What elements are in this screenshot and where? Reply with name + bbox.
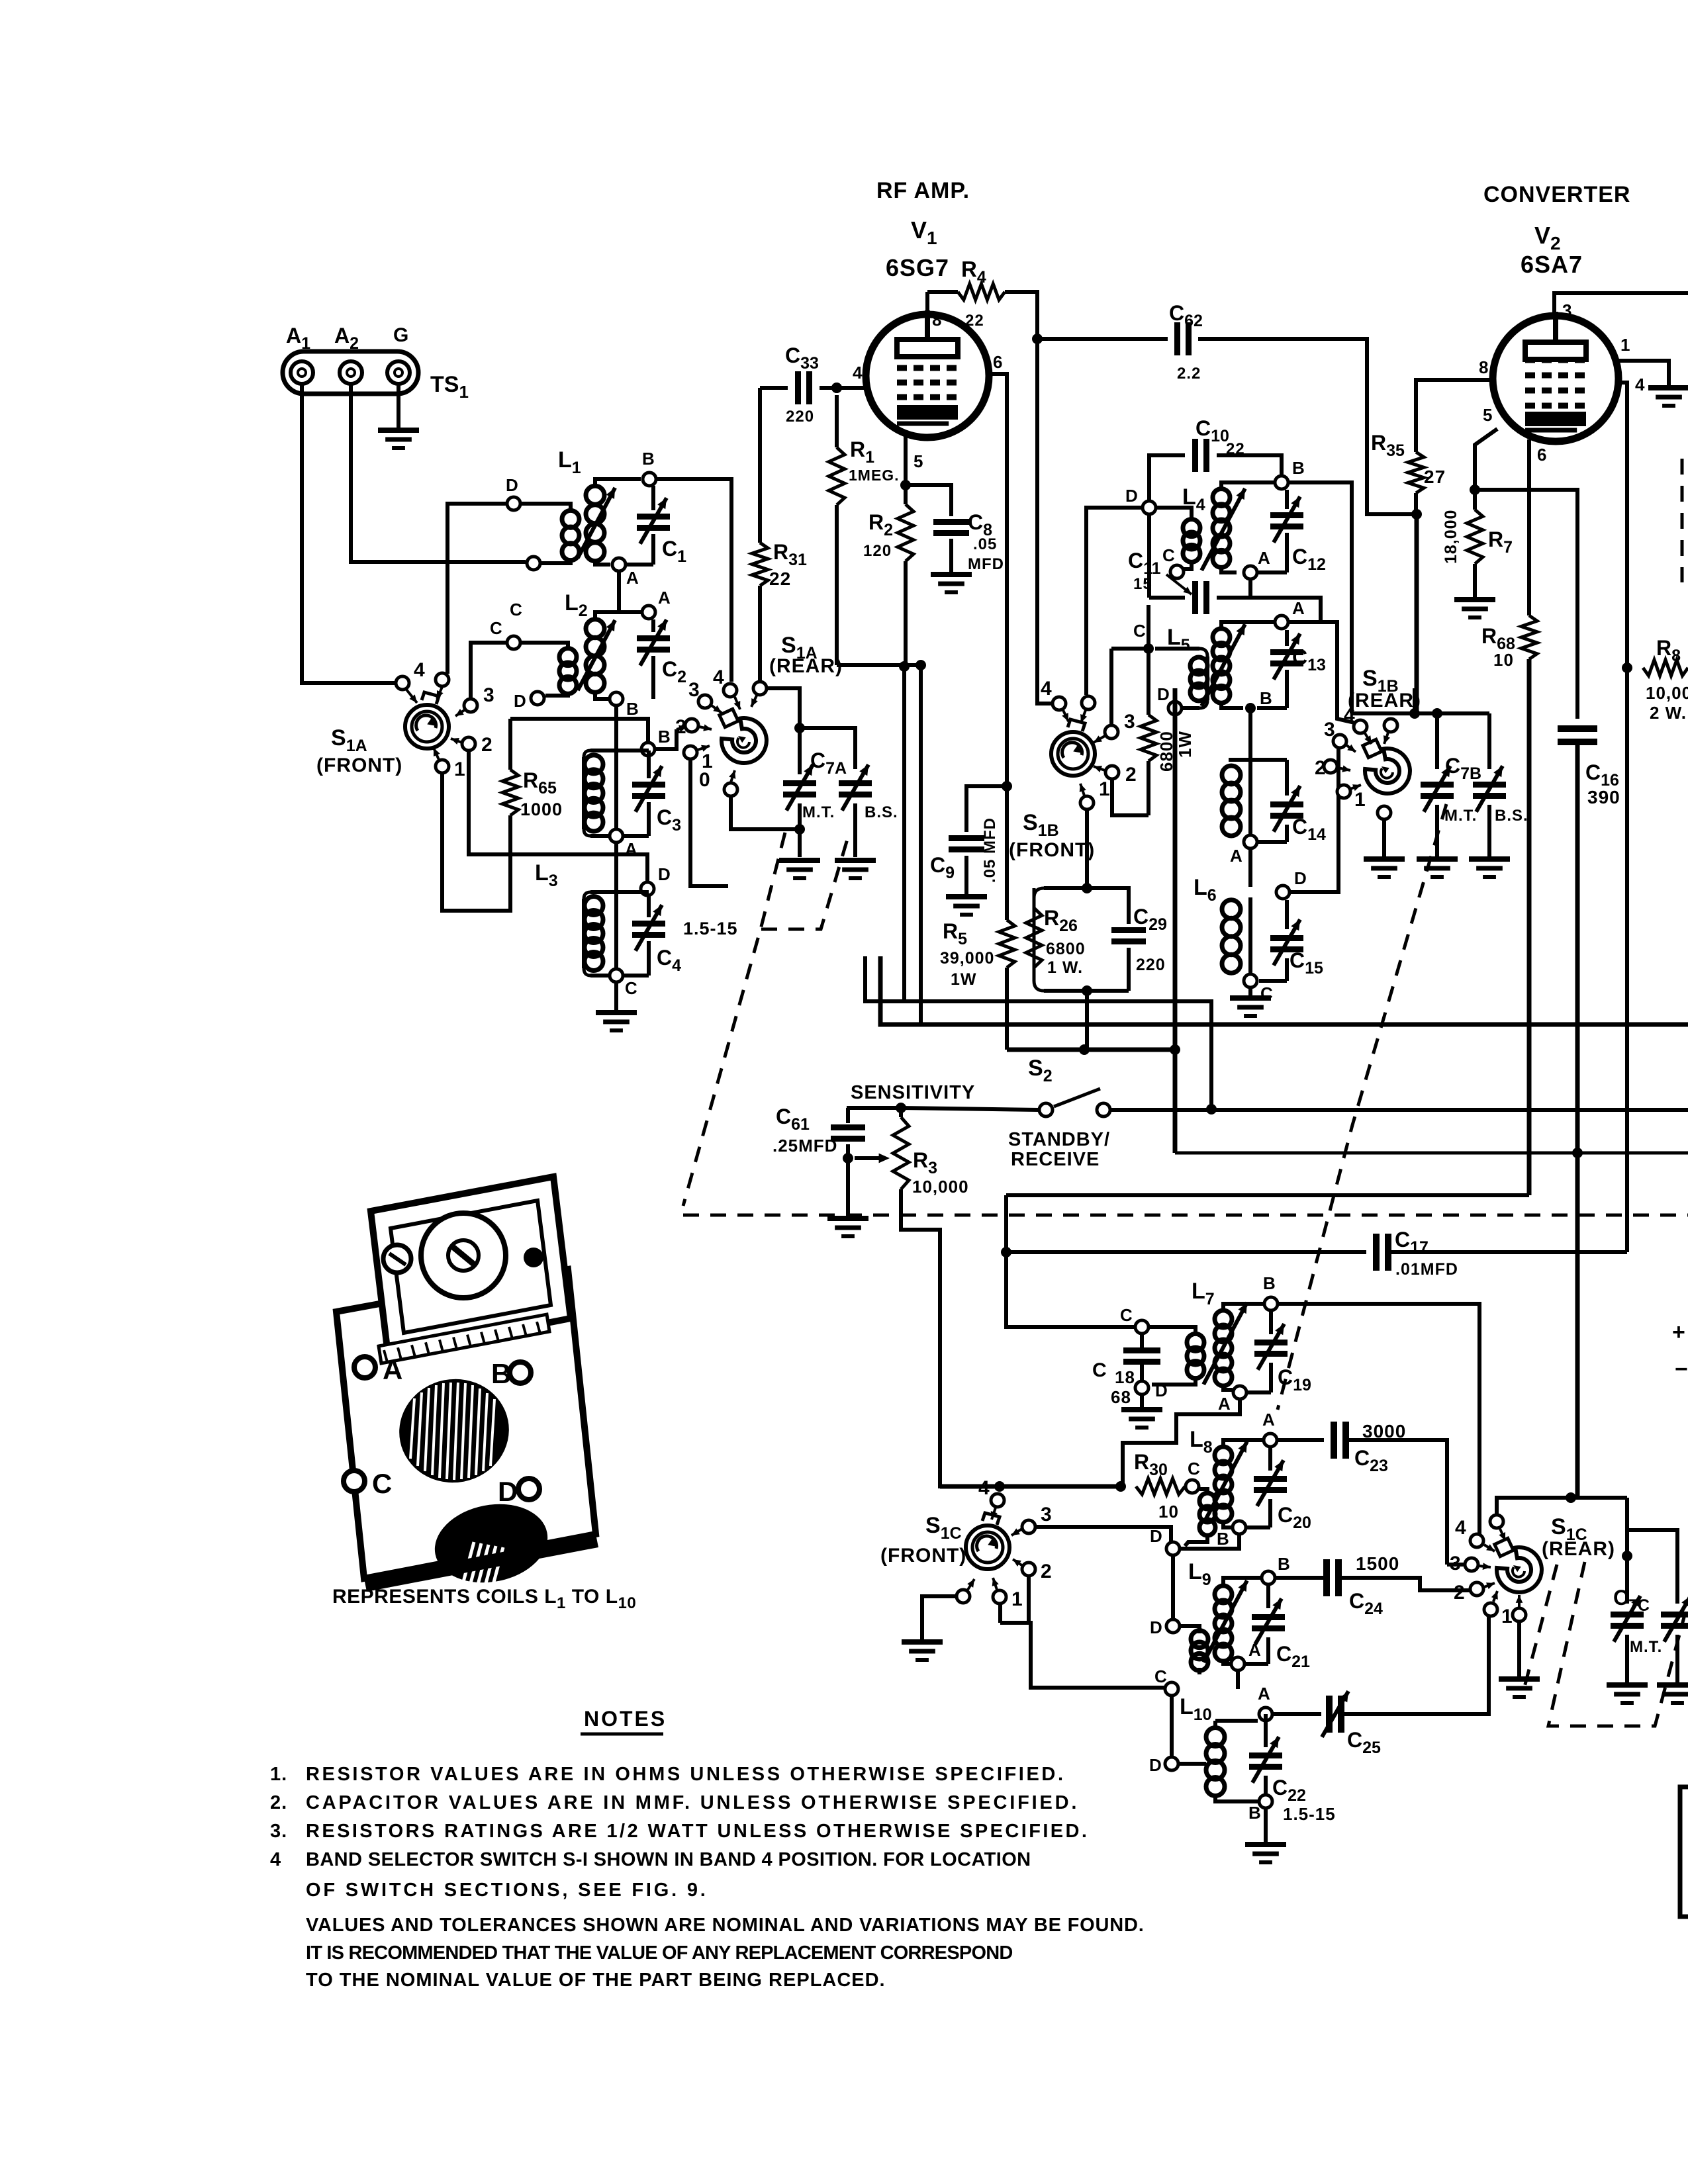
svg-text:68: 68 bbox=[1111, 1387, 1131, 1407]
node B of L7 bbox=[1263, 1273, 1278, 1310]
wire contact 2 to resistor bottom bbox=[1112, 780, 1149, 815]
svg-text:(FRONT): (FRONT) bbox=[1009, 839, 1095, 861]
svg-text:C: C bbox=[1154, 1666, 1168, 1686]
dashed linkage right edge bbox=[1681, 459, 1684, 582]
resistor R2 bbox=[863, 485, 914, 666]
svg-text:D: D bbox=[1150, 1526, 1163, 1546]
svg-text:D: D bbox=[658, 864, 671, 884]
svg-text:220: 220 bbox=[786, 408, 814, 426]
junction S1B rear b bbox=[1432, 708, 1442, 719]
switch S2 contacts bbox=[1039, 1089, 1110, 1116]
svg-text:VALUES AND TOLERANCES SHOWN AR: VALUES AND TOLERANCES SHOWN ARE NOMINAL … bbox=[306, 1915, 1145, 1936]
svg-text:3.: 3. bbox=[270, 1821, 287, 1842]
S1B rear contact 4 bbox=[1344, 704, 1372, 744]
wire L2 B down to L3 section bbox=[614, 706, 618, 751]
S1A rear moving contact bbox=[751, 682, 767, 707]
switch S2 label bbox=[1028, 1056, 1053, 1085]
svg-text:D: D bbox=[1150, 1617, 1163, 1637]
svg-text:C: C bbox=[1092, 1359, 1107, 1381]
node A of L4 bbox=[1244, 548, 1271, 579]
wire pin5 to C16 branch bbox=[1475, 490, 1577, 719]
plus minus marks bbox=[1672, 1320, 1688, 1382]
node C of L5 bbox=[1133, 621, 1154, 654]
svg-text:B: B bbox=[1278, 1554, 1291, 1574]
coil L6 winding upper bbox=[1222, 760, 1250, 836]
svg-text:2: 2 bbox=[675, 716, 687, 738]
node A of L6 bbox=[1230, 835, 1257, 866]
svg-text:10: 10 bbox=[1493, 650, 1514, 670]
svg-text:C: C bbox=[1162, 545, 1176, 565]
node D of L8 row bbox=[1150, 1526, 1180, 1555]
node B of L10 bbox=[1248, 1795, 1272, 1823]
svg-text:2: 2 bbox=[481, 734, 493, 756]
S1C rear contact 4 bbox=[1455, 1517, 1495, 1551]
svg-text:B: B bbox=[1217, 1529, 1230, 1549]
svg-text:1: 1 bbox=[1620, 335, 1630, 355]
svg-text:1W: 1W bbox=[951, 970, 977, 989]
trimmer capacitor B.S. of C7B bbox=[1473, 713, 1528, 857]
node D of L6 bbox=[1276, 868, 1307, 899]
wire R35 junction down to S1B rear bbox=[1415, 514, 1419, 713]
svg-text:8: 8 bbox=[1479, 357, 1489, 377]
node A of L3 bbox=[610, 829, 638, 859]
node B of L9 bbox=[1262, 1554, 1291, 1584]
resistor 6800 1W bbox=[1141, 605, 1195, 815]
capacitor C8 bbox=[906, 485, 1009, 573]
tube V2 pin 5 lead bbox=[1475, 405, 1497, 490]
coil L2 label bbox=[565, 590, 588, 620]
svg-text:4: 4 bbox=[1635, 375, 1645, 394]
node C of L1 bbox=[510, 557, 540, 619]
svg-text:2: 2 bbox=[1041, 1561, 1053, 1582]
svg-text:22: 22 bbox=[1226, 440, 1245, 458]
ground under B.S. of C7C bbox=[1657, 1685, 1688, 1703]
wire R3 to S1C front bbox=[901, 1189, 993, 1486]
long vertical from R2 bbox=[902, 666, 906, 1001]
capacitor C17 bbox=[1006, 1228, 1627, 1279]
svg-text:4: 4 bbox=[1041, 678, 1053, 700]
svg-text:4: 4 bbox=[978, 1477, 990, 1499]
coil L5 primary bbox=[1155, 649, 1207, 708]
svg-text:4: 4 bbox=[1455, 1517, 1467, 1539]
wire A row bbox=[614, 843, 618, 887]
svg-text:1W: 1W bbox=[1175, 731, 1195, 758]
wire contact1 stub bbox=[998, 1604, 1002, 1623]
tube V1 designation bbox=[876, 178, 970, 281]
standby receive label bbox=[1008, 1129, 1110, 1170]
node A of L8 bbox=[1262, 1410, 1277, 1447]
wire S1B contact1 down bbox=[1085, 810, 1089, 888]
node A of L2 bbox=[642, 588, 671, 619]
wire contact2 branch down bbox=[1029, 1623, 1165, 1688]
wire S2 to right bbox=[1110, 1108, 1688, 1112]
variable capacitor C1 bbox=[626, 486, 686, 566]
ground under L6 bbox=[1230, 988, 1271, 1016]
svg-text:B.S.: B.S. bbox=[865, 803, 898, 821]
wire S1A contact 2 down bbox=[469, 751, 584, 854]
svg-text:A: A bbox=[1258, 1684, 1271, 1704]
svg-text:(REAR): (REAR) bbox=[769, 655, 843, 677]
tank L6 upper box bbox=[1229, 760, 1287, 887]
variable capacitor C14 bbox=[1257, 760, 1326, 844]
coil L8 label bbox=[1190, 1427, 1213, 1457]
tube V1 pin 5 lead bbox=[906, 430, 923, 485]
S1B front contact 2 bbox=[1094, 764, 1137, 786]
svg-text:C: C bbox=[1188, 1459, 1201, 1479]
tube V2 designation bbox=[1483, 182, 1630, 278]
tube V2 pin 8 lead bbox=[1416, 357, 1494, 452]
resistor R1 bbox=[829, 395, 900, 665]
junction S2 right bbox=[1206, 1104, 1217, 1115]
coil L10 winding bbox=[1179, 1721, 1258, 1801]
svg-text:2.: 2. bbox=[270, 1792, 287, 1813]
svg-text:.25MFD: .25MFD bbox=[773, 1136, 837, 1156]
wire C of L10 down bbox=[1170, 1696, 1174, 1756]
wire C33 to V1 pin 4 bbox=[837, 363, 867, 388]
capacitor C4 range label bbox=[683, 919, 738, 938]
node D of L2 bbox=[514, 691, 544, 711]
S1C front contact 2 bbox=[1013, 1559, 1053, 1582]
ground under S1B rear bbox=[1364, 859, 1405, 877]
node B of L8 bbox=[1217, 1521, 1246, 1549]
wire D of L8 to B of L8 bbox=[1180, 1535, 1239, 1549]
svg-text:RESISTORS RATINGS ARE 1/2 W: RESISTORS RATINGS ARE 1/2 WATT UNLESS OT… bbox=[306, 1821, 1089, 1842]
coil L4 secondary bbox=[1201, 482, 1275, 572]
dashed linkage middle diagonal bbox=[1278, 804, 1446, 1410]
capacitor C33 bbox=[760, 343, 837, 426]
bus wire y1544 bbox=[880, 956, 1688, 1024]
svg-text:3: 3 bbox=[1324, 719, 1336, 741]
right edge bracket bbox=[1680, 1787, 1688, 1917]
S1C rear contact 1 bbox=[1484, 1591, 1513, 1627]
S1A front contact 1 bbox=[434, 748, 466, 780]
svg-text:IT IS RECOMMENDED THAT THE VAL: IT IS RECOMMENDED THAT THE VALUE OF ANY … bbox=[306, 1942, 1012, 1964]
bus wire y1737 bbox=[1175, 1148, 1688, 1158]
S1A front contact 3 bbox=[455, 684, 495, 716]
svg-text:2 W.: 2 W. bbox=[1650, 703, 1687, 723]
svg-text:120: 120 bbox=[863, 542, 892, 560]
junction top of R26 bbox=[1082, 883, 1092, 893]
capacitor C61 bbox=[773, 1105, 865, 1158]
switch S1A front rotor bbox=[405, 692, 449, 749]
wire A2 to coil L1 terminal C bbox=[351, 384, 526, 562]
svg-text:BAND SELECTOR SWITCH S-I SHOWN: BAND SELECTOR SWITCH S-I SHOWN IN BAND 4… bbox=[306, 1849, 1031, 1870]
ground under C18 bbox=[1121, 1395, 1162, 1428]
switch S1C front rotor bbox=[966, 1513, 1009, 1569]
wire R1 bottom row bbox=[837, 663, 921, 667]
node A of L1 bbox=[612, 558, 639, 588]
junction V2 pin 5 bbox=[1470, 484, 1480, 495]
node C of L10 bbox=[1154, 1666, 1178, 1696]
svg-text:2: 2 bbox=[1454, 1582, 1466, 1604]
coil L4 primary bbox=[1156, 508, 1200, 569]
wire D of L4 to S1B front contact 4 bbox=[1086, 508, 1143, 695]
coil L4 label bbox=[1182, 484, 1205, 514]
note 1. bbox=[270, 1764, 1066, 1785]
wire R26 to ground bus bbox=[1085, 991, 1089, 1050]
svg-text:B: B bbox=[491, 1358, 511, 1389]
svg-text:1: 1 bbox=[1354, 789, 1366, 811]
S1A rear contact 3 bbox=[688, 679, 722, 713]
wire R65 top to L2 B branch bbox=[510, 719, 648, 741]
capacitor C62 bbox=[1037, 301, 1412, 514]
svg-text:B: B bbox=[1260, 688, 1273, 708]
svg-text:D: D bbox=[1125, 486, 1139, 506]
svg-text:MFD.: MFD. bbox=[968, 555, 1009, 573]
svg-text:1: 1 bbox=[454, 758, 466, 780]
node A of L10 bbox=[1258, 1684, 1272, 1721]
S1C rear contact 3 bbox=[1450, 1553, 1491, 1574]
svg-text:SENSITIVITY: SENSITIVITY bbox=[851, 1082, 975, 1103]
svg-text:220: 220 bbox=[1136, 956, 1166, 974]
svg-text:6: 6 bbox=[993, 352, 1003, 372]
bus wire y1806 bbox=[1006, 1193, 1529, 1197]
wire junction to B.S. bbox=[800, 728, 855, 769]
dashed linkage corner piece bbox=[761, 833, 849, 929]
resistor R5 bbox=[940, 919, 1015, 1050]
node D of L10 bbox=[1149, 1755, 1178, 1775]
wire x1515 down to C17 bbox=[1001, 1195, 1135, 1327]
ground under C9 bbox=[946, 897, 987, 915]
wire L7 A to L8 row bbox=[1123, 1400, 1240, 1486]
wire C61 to ground bbox=[827, 1158, 868, 1236]
svg-text:5: 5 bbox=[914, 451, 923, 471]
coil L3 label bbox=[535, 860, 558, 890]
svg-text:B: B bbox=[642, 449, 655, 469]
junction at V1 grid bbox=[831, 383, 842, 393]
capacitor C23 bbox=[1278, 1421, 1447, 1565]
note 3. bbox=[270, 1821, 1089, 1842]
pictorial shielded coil body bbox=[336, 1177, 598, 1592]
S1C front contact 3 bbox=[1011, 1504, 1053, 1535]
wire B of L10 to ground bbox=[1245, 1809, 1286, 1862]
svg-text:B: B bbox=[626, 699, 639, 719]
ground under C7A bbox=[779, 829, 820, 878]
svg-text:M.T.: M.T. bbox=[1630, 1638, 1662, 1656]
capacitor C11 bbox=[1128, 515, 1321, 622]
note 4 bbox=[270, 1849, 1031, 1870]
ground under C7B bbox=[1417, 859, 1458, 877]
ground under C7C bbox=[1607, 1685, 1648, 1703]
switch S1C front label bbox=[880, 1513, 966, 1567]
S1C front contact 1 bbox=[992, 1578, 1023, 1610]
svg-text:390: 390 bbox=[1587, 787, 1620, 807]
S1B front contact 3 bbox=[1094, 711, 1136, 743]
variable capacitor C21 bbox=[1245, 1585, 1310, 1671]
node C of L8 bbox=[1186, 1459, 1201, 1493]
S1C front contact 4 bbox=[978, 1477, 1004, 1520]
S1B rear contact 2 bbox=[1315, 757, 1350, 779]
coil L3 lower winding bbox=[585, 887, 616, 971]
svg-text:RESISTOR VALUES ARE IN OHMS: RESISTOR VALUES ARE IN OHMS UNLESS OTHER… bbox=[306, 1764, 1066, 1785]
switch S1A front label bbox=[316, 725, 402, 776]
resistor R65 bbox=[502, 719, 563, 857]
bus wire y1586 bbox=[1007, 1048, 1175, 1052]
svg-text:A: A bbox=[1262, 1410, 1276, 1430]
junction under C7A bbox=[794, 824, 805, 835]
switch S1B front label bbox=[1009, 810, 1095, 861]
vertical wire to 1737 corner bbox=[1173, 688, 1178, 1153]
resistor R26 with C29 box bbox=[1026, 888, 1087, 991]
coil L10 label bbox=[1180, 1694, 1212, 1724]
variable capacitor C12 bbox=[1257, 490, 1326, 574]
capacitor C16 bbox=[1558, 729, 1620, 1498]
coil L9 secondary bbox=[1203, 1578, 1261, 1664]
svg-text:1 W.: 1 W. bbox=[1047, 958, 1083, 977]
wire A of L5 to right bbox=[1289, 622, 1354, 723]
terminal strip TS1 bbox=[283, 324, 469, 402]
svg-text:8: 8 bbox=[932, 310, 942, 330]
svg-text:2: 2 bbox=[1125, 764, 1137, 786]
tank circuit box with C3 bbox=[584, 751, 649, 836]
wire bottom contact to ground bbox=[1499, 1622, 1540, 1697]
svg-text:A: A bbox=[1292, 598, 1305, 618]
S1A rear contact 0 bbox=[699, 769, 737, 796]
wire L1 A to L2 A bbox=[619, 572, 641, 612]
R3 wiper arrow bbox=[855, 1154, 890, 1163]
svg-text:10,000: 10,000 bbox=[1646, 683, 1688, 703]
junction bottom of R26 bbox=[1082, 985, 1092, 996]
wire D of L1 to S1A front bbox=[447, 504, 507, 674]
node A of L9 bbox=[1231, 1640, 1262, 1670]
long vertical paralleling bbox=[915, 660, 926, 1024]
svg-text:D: D bbox=[1294, 868, 1307, 888]
switch S1A rear label bbox=[769, 633, 843, 677]
switch S1B rear label bbox=[1348, 666, 1421, 711]
svg-text:TO THE NOMINAL VALUE OF THE PA: TO THE NOMINAL VALUE OF THE PART BEING R… bbox=[306, 1970, 886, 1991]
svg-text:B: B bbox=[1248, 1803, 1262, 1823]
svg-text:CAPACITOR VALUES ARE IN MMF: CAPACITOR VALUES ARE IN MMF. UNLESS OTHE… bbox=[306, 1792, 1079, 1813]
wire S1A front contact 1 down bbox=[442, 774, 510, 911]
S1B front moving contact bbox=[1080, 696, 1095, 723]
coil L7 secondary bbox=[1203, 1302, 1264, 1390]
wire S1A rear contact 1 down bbox=[690, 760, 728, 886]
tube V2 pin 3 lead bbox=[1554, 293, 1688, 320]
svg-text:1.5-15: 1.5-15 bbox=[683, 919, 738, 938]
S1A front contact 2 bbox=[451, 734, 493, 756]
trimmer capacitor B.S. of C7A bbox=[839, 764, 898, 857]
svg-text:3: 3 bbox=[483, 684, 495, 706]
svg-text:1.5-15: 1.5-15 bbox=[1283, 1804, 1336, 1824]
bus wire y1513 bbox=[865, 956, 1211, 1108]
tube V2 pin 4 lead bbox=[1618, 375, 1645, 1252]
svg-text:6800: 6800 bbox=[1046, 940, 1086, 958]
svg-text:C: C bbox=[1120, 1305, 1133, 1325]
variable capacitor C3 bbox=[624, 751, 681, 836]
svg-text:1: 1 bbox=[1011, 1588, 1023, 1610]
junction C9 tap bbox=[1002, 781, 1012, 792]
wire contact 3 row bbox=[1111, 647, 1145, 651]
wire L2 C to S1A front contact 3 bbox=[471, 643, 507, 699]
svg-text:18: 18 bbox=[1115, 1367, 1135, 1387]
R26 labels bbox=[1044, 906, 1086, 977]
wire S1B rear top row bbox=[1352, 711, 1489, 715]
node B of L1 bbox=[642, 449, 656, 486]
resistor R7 bbox=[1442, 490, 1513, 598]
svg-text:1.: 1. bbox=[270, 1764, 287, 1785]
svg-text:+: + bbox=[1672, 1320, 1686, 1345]
resistor R30 bbox=[1134, 1450, 1185, 1522]
junction sensitivity bbox=[896, 1103, 906, 1113]
node D of L3 bbox=[641, 864, 671, 895]
switch S1B rear rotor bbox=[1363, 739, 1410, 794]
dashed gang line horizontal bbox=[683, 1214, 1688, 1217]
ground under L3 bbox=[596, 983, 637, 1030]
wire node to S1A rear contact 2 bbox=[655, 725, 687, 749]
junction bus1 bbox=[1079, 1044, 1090, 1055]
junction S1B rear a bbox=[1409, 708, 1420, 719]
svg-text:B: B bbox=[1292, 458, 1305, 478]
junction R4 C62 bbox=[1032, 334, 1043, 344]
svg-text:39,000: 39,000 bbox=[940, 949, 994, 968]
note 4 second line bbox=[306, 1880, 708, 1901]
svg-text:D: D bbox=[498, 1476, 518, 1507]
resistor R31 bbox=[752, 388, 807, 680]
svg-text:C: C bbox=[625, 978, 638, 998]
wire D of L6 right bbox=[1290, 735, 1338, 892]
svg-text:D: D bbox=[506, 475, 519, 495]
svg-text:(REAR): (REAR) bbox=[1348, 690, 1421, 711]
S1A rear contact 4 bbox=[713, 666, 740, 709]
wire contact1 of S1B rear to ground bbox=[1378, 806, 1391, 857]
trimmer capacitor C7C M.T. bbox=[1611, 1498, 1662, 1683]
svg-text:B.S.: B.S. bbox=[1495, 807, 1528, 825]
wire pin4 row junction down R1 bbox=[831, 383, 842, 393]
switch S1C rear label bbox=[1542, 1514, 1615, 1560]
svg-text:10,000: 10,000 bbox=[912, 1177, 969, 1197]
variable capacitor C19 bbox=[1247, 1311, 1311, 1394]
svg-text:.01MFD: .01MFD bbox=[1395, 1260, 1458, 1279]
tube V2 6SA7 bbox=[1493, 312, 1618, 441]
svg-text:27: 27 bbox=[1424, 467, 1446, 487]
variable capacitor C4 bbox=[624, 896, 681, 976]
tube V2 pin 1 lead bbox=[1614, 335, 1669, 386]
node A of L5 top bbox=[1275, 598, 1305, 629]
S1C rear bottom contact bbox=[1513, 1595, 1526, 1621]
switch S1B front rotor bbox=[1051, 719, 1095, 776]
coil L2 secondary winding bbox=[578, 612, 641, 699]
svg-text:M.T.: M.T. bbox=[1444, 807, 1477, 825]
svg-text:B: B bbox=[1263, 1273, 1276, 1293]
svg-text:1000: 1000 bbox=[520, 799, 563, 819]
capacitor C10 bbox=[1149, 416, 1282, 500]
svg-text:15: 15 bbox=[1133, 575, 1152, 593]
S1B front contact 4 bbox=[1041, 678, 1068, 721]
ground at TS1 terminal G bbox=[378, 384, 419, 448]
trimmer capacitor C7B M.T. bbox=[1421, 713, 1481, 857]
wire long vertical from S1B rear bbox=[1413, 688, 1417, 713]
capacitor C29 bbox=[1087, 888, 1167, 991]
ground under R7 bbox=[1454, 600, 1495, 617]
trimmer capacitor B.S. of C7C bbox=[1627, 1530, 1688, 1683]
wire L4 B to right bbox=[1289, 482, 1352, 713]
svg-text:1: 1 bbox=[1099, 778, 1111, 800]
node feeding S1A rear contact 2 bbox=[641, 727, 671, 756]
coil L9 label bbox=[1188, 1559, 1211, 1589]
dashed linkage at C7C bbox=[1548, 1562, 1685, 1726]
S1B rear contact 3 bbox=[1324, 719, 1356, 752]
svg-text:C: C bbox=[1133, 621, 1147, 641]
node C of L7 bbox=[1120, 1305, 1149, 1334]
node B of L5 bbox=[1245, 688, 1273, 713]
resistor R68 bbox=[1481, 615, 1537, 1195]
variable capacitor C22 bbox=[1249, 1721, 1336, 1824]
S1A rear contact 2 bbox=[675, 716, 712, 738]
wire C11 right to A of L4 bbox=[1248, 580, 1252, 598]
dashed linkage at C7C second bbox=[1523, 1565, 1557, 1694]
ground under C8 bbox=[931, 574, 972, 592]
switch S1A rear rotor bbox=[720, 709, 767, 763]
